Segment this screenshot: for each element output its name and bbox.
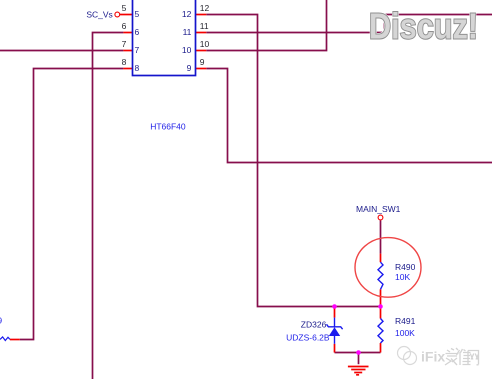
svg-text:10: 10 — [200, 39, 210, 49]
svg-text:8: 8 — [122, 57, 127, 67]
svg-text:9: 9 — [200, 57, 205, 67]
svg-text:5: 5 — [122, 3, 127, 13]
svg-text:HT66F40: HT66F40 — [150, 121, 186, 131]
svg-text:R490: R490 — [395, 262, 416, 272]
svg-text:Discuz!: Discuz! — [369, 5, 478, 46]
svg-text:6: 6 — [135, 27, 140, 37]
svg-text:11: 11 — [200, 21, 209, 31]
svg-text:10: 10 — [182, 45, 192, 55]
svg-text:UDZS-6.2B: UDZS-6.2B — [286, 333, 330, 343]
svg-text:10K: 10K — [395, 272, 410, 282]
svg-text:R491: R491 — [395, 316, 416, 326]
svg-text:8: 8 — [135, 63, 140, 73]
svg-text:7: 7 — [122, 39, 127, 49]
svg-text:7: 7 — [135, 45, 140, 55]
svg-text:11: 11 — [183, 27, 192, 37]
svg-text:12: 12 — [200, 3, 210, 13]
svg-text:12: 12 — [182, 9, 192, 19]
svg-text:9: 9 — [0, 316, 2, 326]
svg-text:9: 9 — [187, 63, 192, 73]
svg-text:100K: 100K — [395, 328, 415, 338]
svg-text:5: 5 — [135, 9, 140, 19]
svg-text:6: 6 — [122, 21, 127, 31]
svg-text:SC_Vs: SC_Vs — [86, 9, 112, 19]
svg-text:ZD326: ZD326 — [301, 320, 327, 330]
svg-text:MAIN_SW1: MAIN_SW1 — [356, 204, 401, 214]
svg-text:iFix: iFix — [421, 349, 445, 365]
